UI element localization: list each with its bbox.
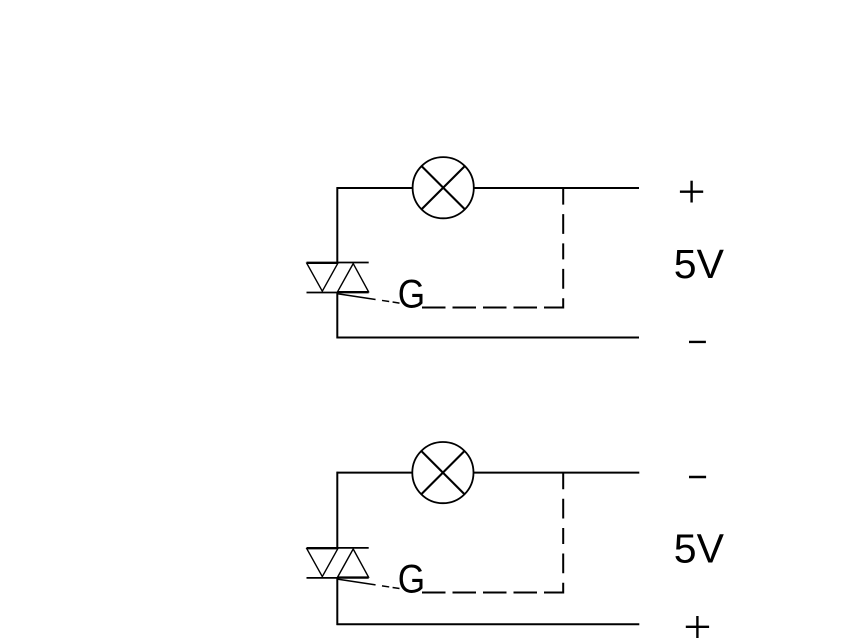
wire: circuit 1 left vertical upper [336,187,338,262]
wire: circuit 2 bottom conductor [337,623,640,625]
dashed gate wire horizontal (circuit 2) [422,592,563,594]
wire: circuit 2 top conductor right segment [474,472,640,474]
wire: circuit 1 left vertical lower [336,293,338,339]
wire: circuit 1 top conductor right segment [474,187,639,189]
gate lead of Q1 (part solid, part dashed) [338,294,400,303]
svg-text:5V: 5V [674,241,725,287]
gate lead of Q2 (part solid, part dashed) [338,579,400,588]
label + (circuit 2 positive terminal) [686,616,709,638]
label + (circuit 1 positive terminal) [680,181,703,203]
lamp L1 [413,157,474,218]
dashed gate wire horizontal (circuit 1) [422,307,563,309]
lamp L2 [412,442,473,503]
wire: circuit 1 bottom conductor [337,337,640,339]
triac Q2 [307,548,369,578]
svg-text:5V: 5V [674,525,725,571]
label - (circuit 2 negative terminal) [689,476,706,478]
svg-text:G: G [398,271,425,316]
dashed gate wire vertical (circuit 1) [562,189,564,309]
svg-text:G: G [398,557,425,602]
wire: circuit 2 top conductor left segment [337,472,414,474]
wire: circuit 1 top conductor left segment [337,187,414,189]
wire: circuit 2 left vertical upper [336,472,338,548]
wire: circuit 2 left vertical lower [336,578,338,625]
label - (circuit 1 negative terminal) [689,341,706,343]
dashed gate wire vertical (circuit 2) [562,473,564,593]
triac Q1 [307,263,369,293]
